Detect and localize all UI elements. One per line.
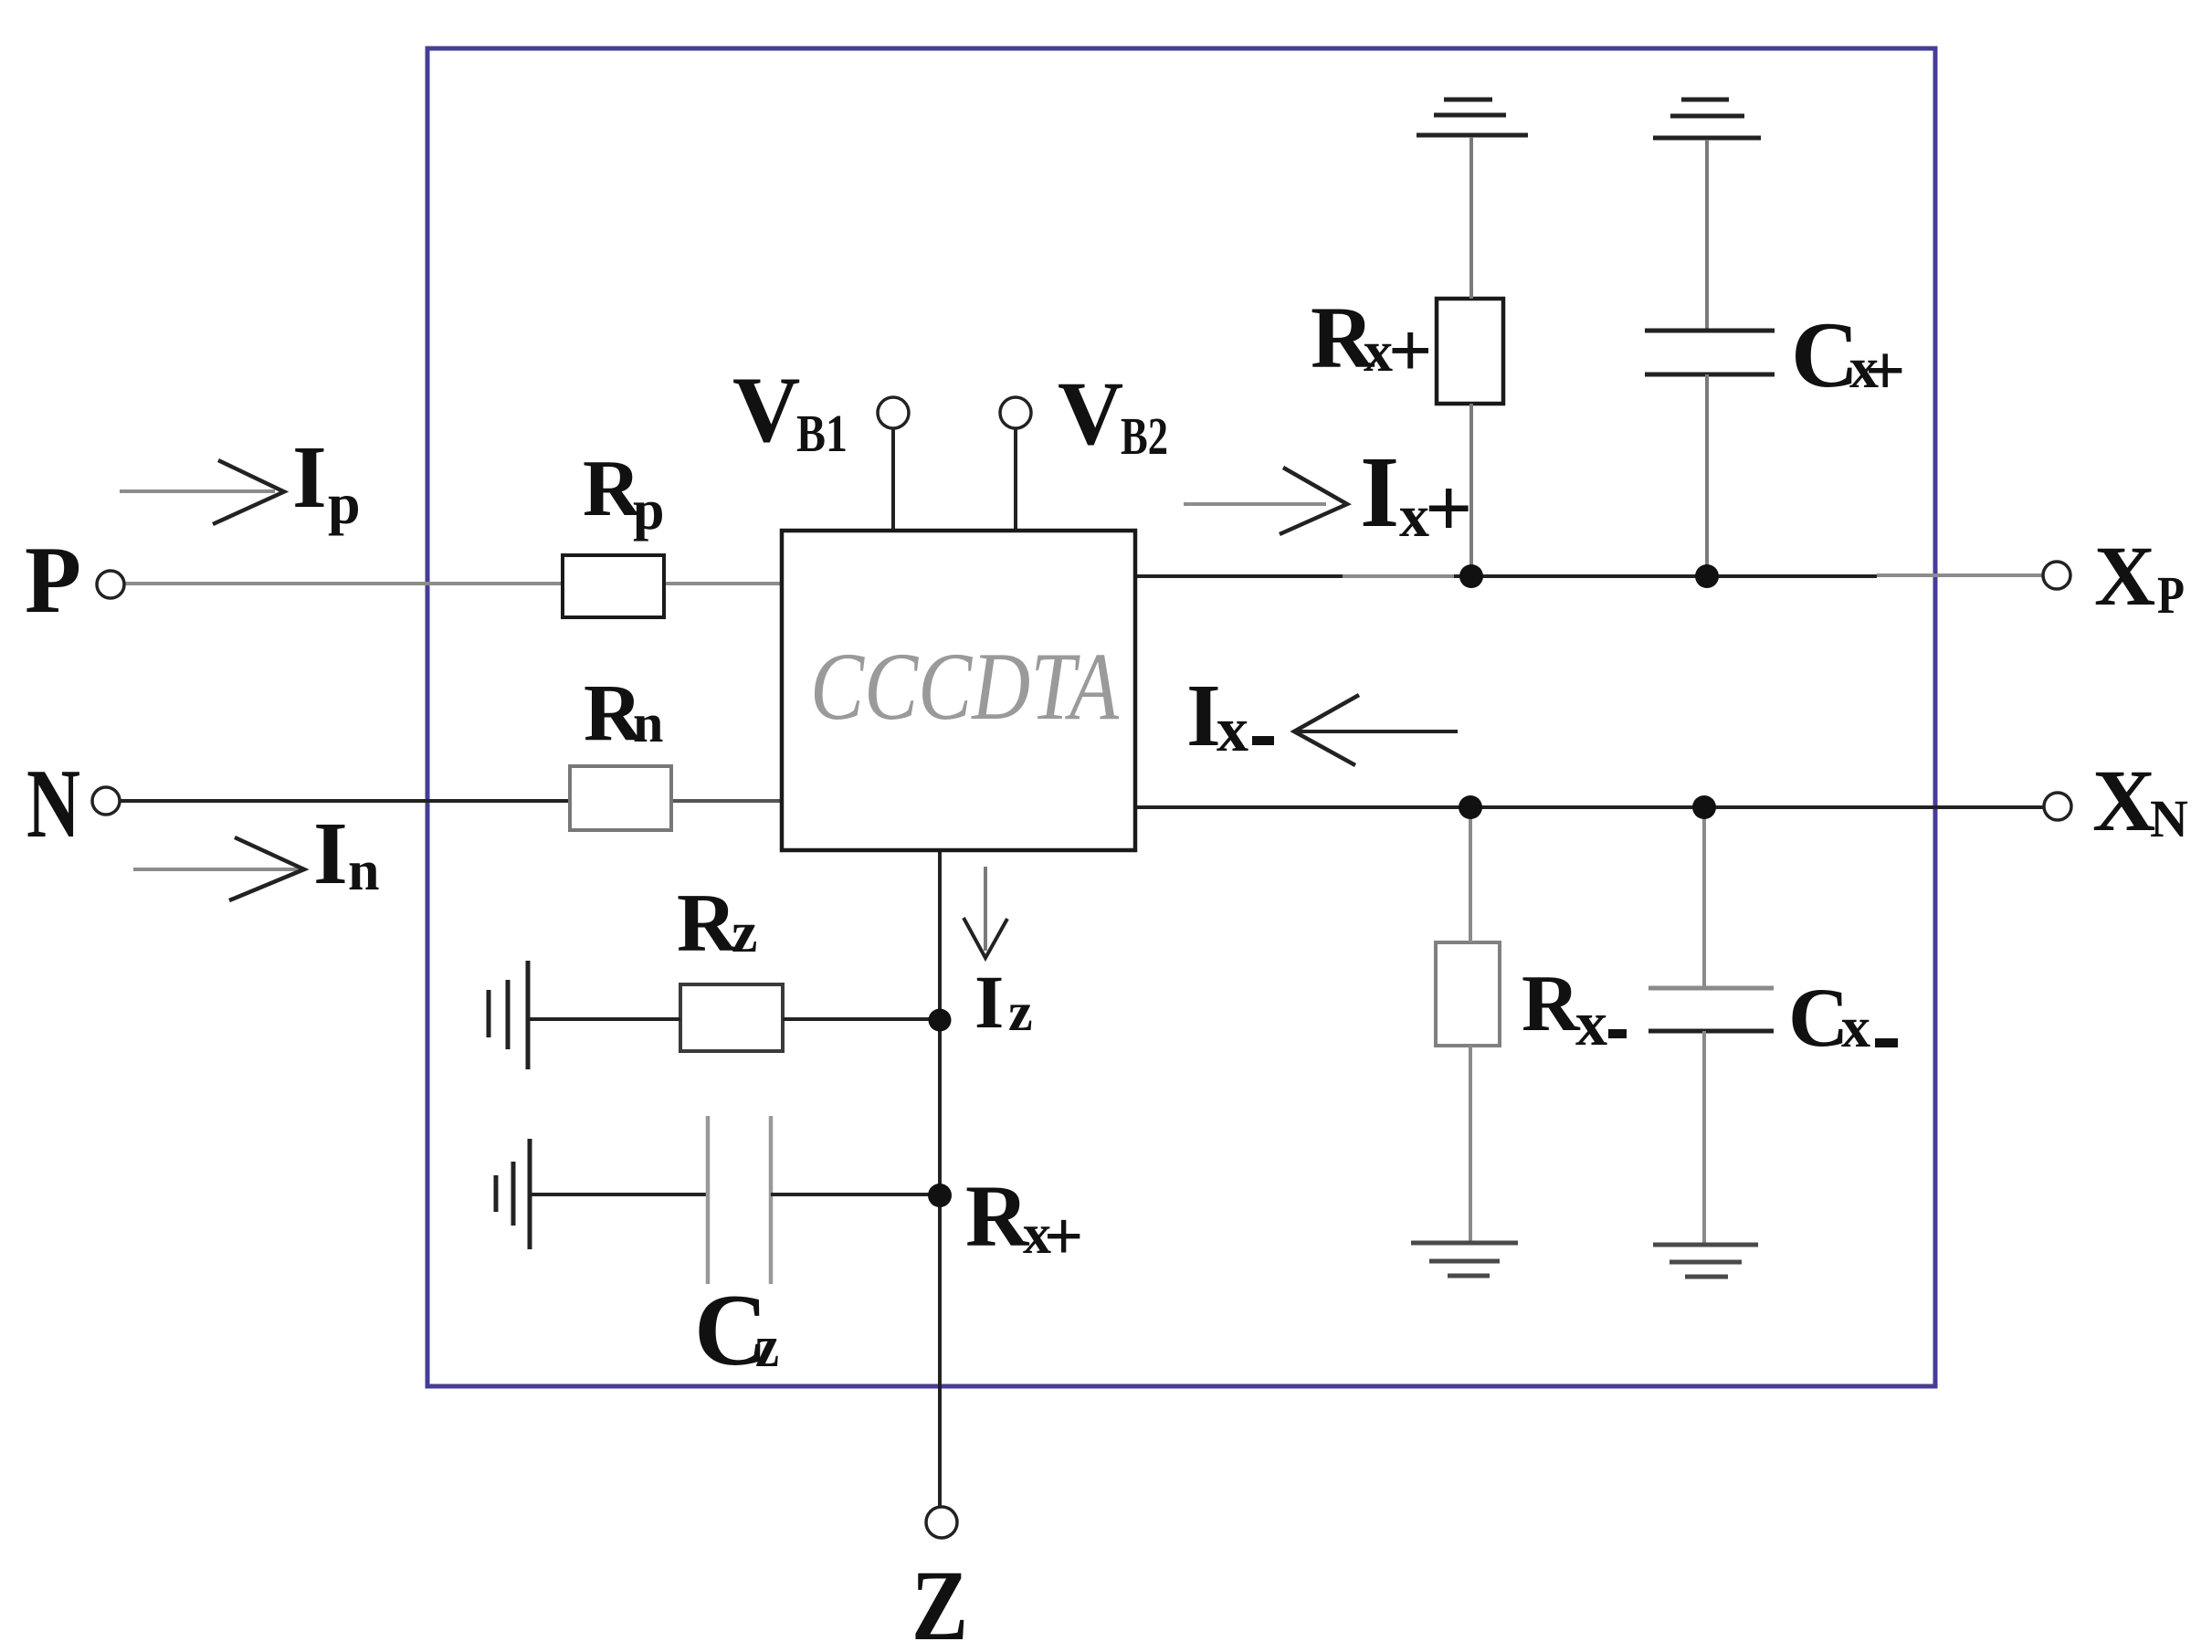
junction node Rx+ (Z wire) [928,1184,952,1207]
ground left of Cz [496,1139,530,1249]
svg-text:+: + [1425,461,1472,554]
svg-text:I: I [1360,437,1399,549]
junction node X-/Rx- [1459,795,1482,819]
svg-text:x: x [1841,994,1870,1059]
wire X- from box to XN terminal [1136,805,2044,809]
svg-text:p: p [633,479,664,542]
svg-text:p: p [328,471,361,536]
svg-text:B2: B2 [1121,406,1168,466]
wire X+ middle segment (gray) [1343,574,1454,578]
junction node X-/Cx- [1692,795,1716,819]
svg-text:CCCDTA: CCCDTA [810,633,1120,740]
svg-text:x: x [1217,695,1248,765]
resistor Rz [680,984,783,1051]
resistor Rp [563,555,664,617]
svg-text:z: z [732,900,757,964]
svg-text:X: X [2092,752,2155,849]
svg-text:P: P [2157,565,2185,625]
wire X- node to Cx- [1702,807,1706,987]
arrow Ip [120,489,275,493]
junction node X+/Rx+ [1459,564,1483,588]
svg-text:V: V [732,358,800,462]
wire ground to Cz [530,1193,708,1196]
terminal VB2 [1000,397,1031,428]
arrow Ix- (pointing left) [1294,730,1458,733]
wire X- node to Rx- [1469,807,1472,942]
arrow Ix+ [1184,502,1326,506]
wire ground to Rz [528,1017,680,1021]
svg-text:+: + [1044,1198,1083,1275]
wire P to Rp (gray) [124,582,563,585]
wire VB1 [891,428,895,531]
terminal XN [2044,793,2071,820]
svg-text:I: I [974,960,1004,1044]
outer blue box [427,48,1935,1386]
svg-text:n: n [633,693,663,753]
resistor Rn [570,766,671,830]
resistor Rx+ (vertical) [1437,299,1503,404]
resistor Rx- (vertical) [1436,942,1500,1046]
wire Z vertical [938,850,942,1507]
svg-text:Z: Z [911,1550,968,1652]
svg-text:z: z [755,1313,779,1380]
svg-text:P: P [25,526,81,633]
CCCDTA block U1 [782,531,1135,850]
wire Rz to Z wire [783,1017,940,1021]
ground above Rx+ [1417,100,1528,135]
arrow Iz (pointing down) [984,867,987,951]
capacitor Cx+ plates [1645,329,1775,333]
wire Cx+ to X+ node [1705,374,1709,576]
svg-text:X: X [2094,530,2155,624]
ground left of Rz [489,961,528,1069]
wire Cz to Z wire [771,1193,940,1196]
wire N to Rn [121,799,570,803]
wire Rp to CCCDTA box (gray) [664,582,782,585]
svg-text:R: R [965,1167,1030,1265]
svg-text:B1: B1 [796,404,848,463]
capacitor Cz plates (vertical) [706,1116,711,1284]
wire X+ to right (black) [1454,574,1877,578]
svg-text:I: I [313,805,348,902]
svg-text:N: N [26,750,80,858]
terminal P [97,571,124,598]
svg-text:R: R [677,877,738,969]
junction node X+/Cx+ [1695,564,1719,588]
svg-text:C: C [1788,971,1849,1064]
wire Rx- to ground [1469,1046,1472,1241]
arrow In [133,868,301,871]
svg-text:n: n [348,840,379,902]
svg-text:z: z [1008,982,1033,1042]
svg-text:I: I [292,428,327,526]
svg-text:N: N [2150,789,2188,848]
wire Cx- to ground [1702,1031,1706,1243]
svg-text:x: x [1575,989,1607,1059]
svg-text:+: + [1865,331,1905,410]
wire ground to Rx+ [1469,137,1473,299]
svg-text:V: V [1058,363,1123,464]
wire VB2 [1014,428,1017,531]
terminal N [92,787,120,815]
terminal VB1 [878,397,909,428]
capacitor Cx- plates [1648,986,1774,991]
wire X+ to XP terminal (gray) [1877,573,2043,577]
wire Rx+ to X+ node [1469,404,1473,576]
wire X+ out of box (black) [1136,574,1343,578]
junction node Iz [929,1009,952,1032]
wire Rn to CCCDTA box [671,799,782,803]
ground below Rx- [1411,1243,1518,1276]
svg-text:R: R [1522,960,1581,1048]
terminal XP [2043,562,2070,589]
ground below Cx- [1653,1245,1758,1277]
wire ground to Cx+ [1705,140,1709,331]
terminal Z [926,1507,957,1538]
ground above Cx+ [1653,100,1761,138]
svg-text:+: + [1388,308,1432,394]
